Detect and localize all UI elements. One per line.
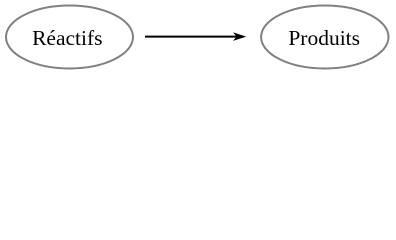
wire: arrow shaft xyxy=(145,36,238,38)
ellipse: Réactifs (reactants oval) xyxy=(6,6,133,69)
ellipse: Produits (products oval) xyxy=(261,6,388,69)
arrowhead xyxy=(233,32,246,41)
svg-text:Produits: Produits xyxy=(288,26,360,50)
svg-text:Réactifs: Réactifs xyxy=(32,26,102,50)
